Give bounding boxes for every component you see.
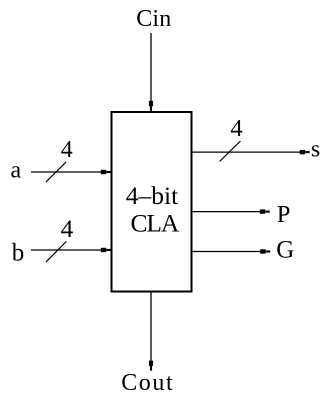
bus slash a bbox=[46, 162, 66, 182]
wire Cout bbox=[150, 292, 152, 362]
svg-text:G: G bbox=[276, 237, 294, 264]
wire a bbox=[31, 171, 104, 173]
svg-text:4: 4 bbox=[61, 215, 74, 243]
svg-text:CLA: CLA bbox=[131, 209, 180, 238]
svg-text:4–bit: 4–bit bbox=[126, 181, 178, 210]
wire G bbox=[192, 251, 264, 253]
svg-text:P: P bbox=[277, 201, 291, 228]
wire b bbox=[31, 249, 104, 251]
svg-text:Cout: Cout bbox=[121, 370, 174, 396]
svg-text:Cin: Cin bbox=[136, 6, 171, 32]
svg-text:4: 4 bbox=[230, 115, 242, 142]
bus slash b bbox=[46, 242, 66, 263]
4-bit CLA block U1 bbox=[112, 112, 192, 292]
bus slash s bbox=[220, 141, 241, 162]
wire P bbox=[192, 211, 263, 213]
svg-text:s: s bbox=[311, 137, 320, 163]
svg-text:b: b bbox=[12, 240, 24, 267]
svg-text:a: a bbox=[11, 157, 22, 183]
svg-text:4: 4 bbox=[61, 137, 73, 163]
wire s bbox=[192, 151, 301, 153]
wire Cin bbox=[150, 33, 152, 104]
